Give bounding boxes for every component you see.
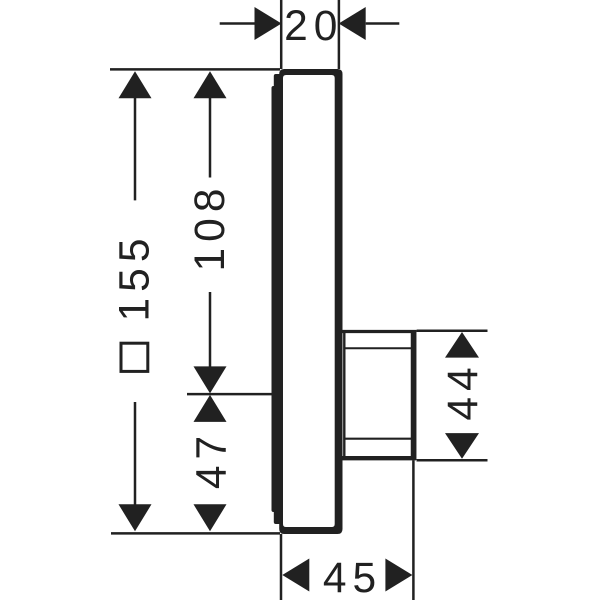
svg-text:108: 108 <box>187 183 234 272</box>
svg-text:155: 155 <box>112 233 159 322</box>
svg-text:45: 45 <box>323 555 382 600</box>
svg-text:20: 20 <box>284 3 343 50</box>
svg-text:47: 47 <box>188 430 235 489</box>
svg-text:44: 44 <box>440 361 487 420</box>
